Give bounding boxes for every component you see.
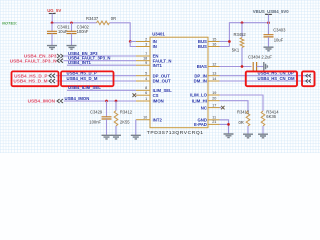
highlight box left ports [12,71,59,86]
junction R3452 top [241,21,244,24]
svg-text:2K55: 2K55 [120,119,130,124]
U3401 pin 7 EN [136,52,159,59]
U3401 pin 6 CS [136,91,159,98]
svg-text:15: 15 [212,37,216,41]
svg-text:IMON: IMON [153,99,164,104]
ground under R3414 [258,134,268,138]
svg-text:NC: NC [201,105,207,110]
power symbol UG_5V [47,8,61,23]
svg-text:10: 10 [143,116,147,120]
IC U3401 box [150,37,208,128]
svg-text:0R: 0R [111,16,116,21]
ground under C3429 [102,135,112,139]
svg-text:INT1: INT1 [153,63,163,68]
svg-text:TPD3S713QRVCRQ1: TPD3S713QRVCRQ1 [147,130,204,136]
svg-text:ILIM_HI: ILIM_HI [192,98,207,103]
svg-text:UG_5V: UG_5V [47,8,61,13]
svg-text:DP_OUT: DP_OUT [153,73,171,78]
capacitor C3404 2.2uF [248,55,272,71]
svg-text:14: 14 [212,77,216,81]
power symbol VBUS_USB4_5V0 [253,9,289,23]
off-page connector DM out [306,79,311,82]
capacitor C3401 10uF [47,23,70,46]
highlight box right net labels [246,71,297,86]
svg-text:18: 18 [143,57,147,61]
svg-text:USB4_IMON: USB4_IMON [65,96,90,101]
svg-text:INT2: INT2 [153,117,163,122]
svg-text:USB4_ILIM_SEL: USB4_ILIM_SEL [68,85,101,90]
svg-text:DM_IN: DM_IN [194,79,207,84]
capacitor C3402 100nF [67,23,90,46]
svg-text:NOTES:: NOTES: [2,20,18,25]
U3401 pin 2 IN [136,37,157,44]
svg-text:0R: 0R [239,120,244,125]
ground under C3403 [264,47,274,51]
wire HS_D_M [56,80,136,82]
svg-text:E-PAD: E-PAD [194,122,207,127]
wire USB4_HS_CN_DP [220,75,311,77]
off-page connector in [49,74,55,78]
svg-text:100nF: 100nF [77,29,89,34]
svg-text:BUS: BUS [198,44,207,49]
ground E-PAD [224,134,234,138]
svg-text:ILIM_LO: ILIM_LO [190,93,207,98]
svg-text:BIAS: BIAS [197,64,207,69]
svg-text:C3404 2.2uF: C3404 2.2uF [248,55,272,60]
svg-text:4: 4 [145,77,147,81]
capacitor C3403 10uF [264,23,287,47]
svg-text:19: 19 [212,91,216,95]
no-connect X on CS [133,93,137,97]
wire USB4_HS_CN_DM [220,80,311,82]
U3401 pin 10 INT2 [136,116,162,123]
svg-text:USB4_HS_D_P: USB4_HS_D_P [14,73,47,78]
wire HS_D_P [56,75,136,77]
U3401 pin 19 ILIM_LO [190,91,219,98]
resistor R3414 6K36 [261,110,279,134]
svg-text:R3437: R3437 [86,16,99,21]
svg-text:C3429: C3429 [90,110,103,115]
wire IMON [64,100,136,102]
junction at R3412 [115,100,118,103]
svg-text:R3413: R3413 [237,109,250,114]
svg-text:12: 12 [212,62,216,66]
junction at C3402 [70,21,73,24]
U3401 pin 5 DP_OUT [136,72,170,79]
wire GND / E-PAD [220,120,229,134]
wire CS stub [135,94,137,96]
svg-text:1: 1 [145,97,147,101]
U3401 pin 21 E-PAD [194,120,220,127]
svg-text:16: 16 [212,42,216,46]
svg-text:USB4_HS_D_M: USB4_HS_D_M [13,79,47,84]
wire INT2 [135,120,137,136]
svg-text:R3452: R3452 [234,32,247,37]
svg-text:CS: CS [153,93,159,98]
ground INT2 [131,135,141,139]
svg-text:5: 5 [145,72,147,76]
wire ILIM_HI [220,101,249,111]
svg-text:100nF: 100nF [89,119,101,124]
resistor R3437 0R [86,16,116,24]
svg-text:USB4_IMON: USB4_IMON [28,99,56,104]
off-page connector out [57,54,63,58]
svg-text:21: 21 [212,120,216,124]
capacitor C3429 100nF [89,101,111,135]
svg-text:10uF: 10uF [274,38,284,43]
svg-text:2: 2 [145,37,147,41]
U3401 pin 4 DM_OUT [136,77,171,84]
junction at IN pins [129,40,132,43]
wire top rail 5V [52,23,130,42]
U3401 pin 15 BUS [198,37,220,44]
ground under C3402 [67,46,77,50]
resistor R3452 [232,23,247,67]
U3401 pin 12 BIAS [197,62,220,69]
U3401 pin 16 BUS [198,42,220,49]
wire BIAS [220,66,252,68]
svg-text:6K36: 6K36 [266,114,276,119]
U3401 pin 20 ILIM_HI [192,97,220,104]
resistor R3413 0R [237,109,250,134]
svg-text:USB4_FAULT_3P3_N: USB4_FAULT_3P3_N [10,58,57,63]
U3401 pin 13 DP_IN [194,72,219,79]
wire BUS pins to 5V rail [220,23,269,47]
off-page connector in [57,59,63,63]
ground under R3413 [243,134,253,138]
svg-text:R3412: R3412 [120,110,133,115]
wire INT1 [67,64,136,66]
svg-text:USB4_HS_D_M: USB4_HS_D_M [67,76,98,81]
U3401 pin 14 DM_IN [194,77,220,84]
svg-text:VBUS_USB4_5V0: VBUS_USB4_5V0 [253,9,289,14]
svg-text:U3401: U3401 [152,32,165,37]
junction E-PAD node [227,123,230,126]
wire EN [64,55,137,57]
wire IN feed [130,42,136,47]
svg-text:5K1: 5K1 [232,47,240,52]
U3401 pin 8 ILIM_SEL [136,86,172,93]
svg-text:USB4_HS_CN_DM: USB4_HS_CN_DM [258,76,296,81]
wire ILIM_LO [220,95,264,111]
junction at C3429 [105,100,108,103]
svg-text:20: 20 [212,97,216,101]
junction BIAS node [241,65,244,68]
U3401 pin 17 NC [201,103,220,110]
svg-text:7: 7 [145,52,147,56]
svg-text:DM_OUT: DM_OUT [153,79,171,84]
no-connect X on pin 17 [220,107,222,109]
U3401 pin 9 INT1 [136,61,162,68]
wire FAULT_N [64,60,137,62]
highlight box right connectors [302,71,315,86]
svg-text:13: 13 [212,72,216,76]
svg-text:3: 3 [145,42,147,46]
svg-text:8: 8 [145,86,147,90]
svg-text:C3403: C3403 [273,27,286,32]
junction at UG_5V stem / C3401 [51,21,54,24]
off-page connector in [49,79,55,83]
svg-text:IN: IN [153,44,157,49]
svg-text:17: 17 [212,103,216,107]
svg-text:10uF: 10uF [58,29,68,34]
off-page connector in [57,99,63,103]
wire ILIM_SEL [67,89,136,91]
ground under C3401 [47,46,57,50]
junction VBUS stem / C3403 [267,21,270,24]
ground under R3412 [111,135,121,139]
highlight box left net labels [61,71,114,86]
svg-text:9: 9 [145,61,147,65]
U3401 pin 11 GND [197,116,219,123]
U3401 pin 18 FAULT_N [136,57,171,64]
U3401 pin 1 IMON [136,97,164,104]
svg-text:USB4_INT1: USB4_INT1 [68,60,92,65]
ground right of C3404 [264,62,268,71]
svg-text:11: 11 [212,116,216,120]
off-page connector DP out [306,74,311,77]
svg-text:6: 6 [145,91,147,95]
svg-text:DP_IN: DP_IN [194,73,207,78]
U3401 pin 3 IN [136,42,157,49]
resistor R3412 2K55 [114,101,133,135]
junction BUS [228,40,231,43]
